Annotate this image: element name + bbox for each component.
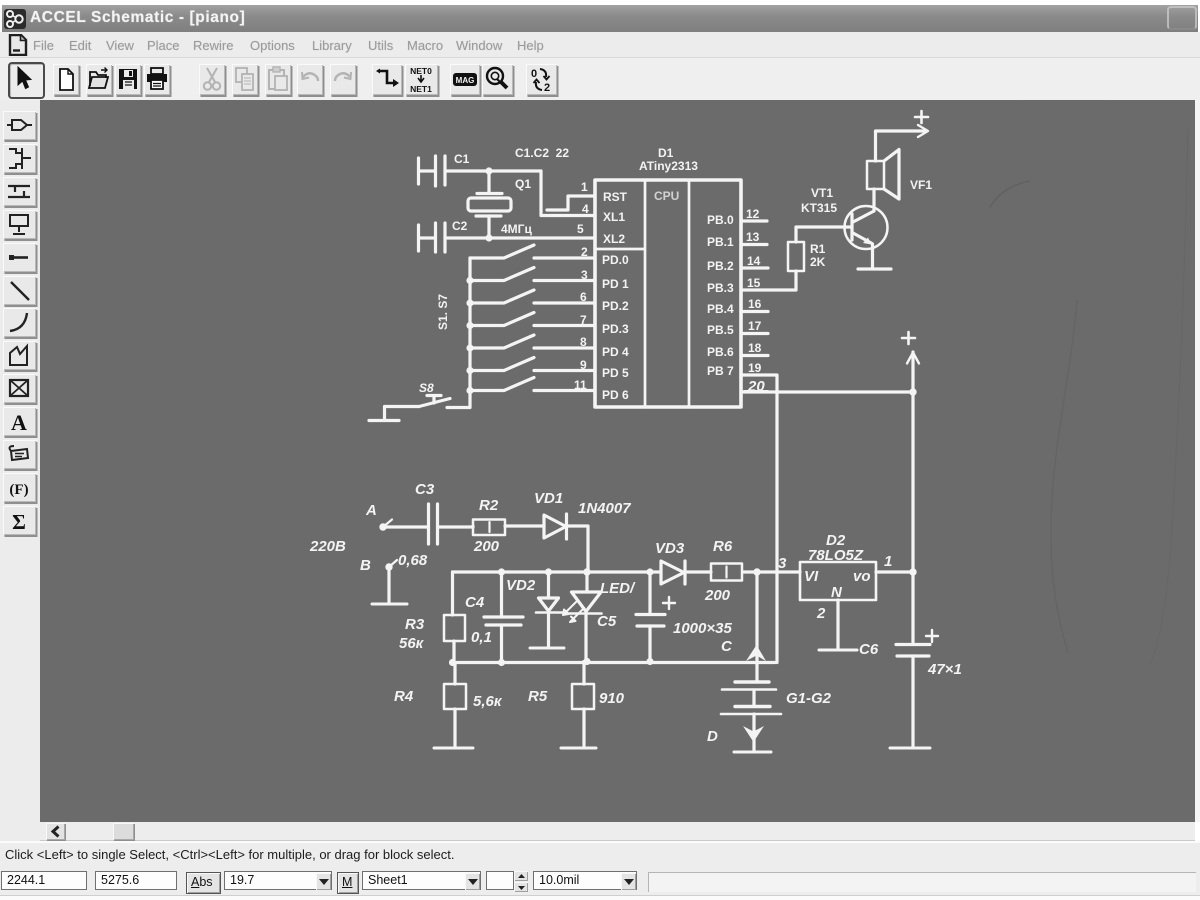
svg-text:4МГц: 4МГц (501, 222, 532, 236)
svg-text:R1: R1 (810, 242, 826, 256)
svg-text:vo: vo (853, 568, 871, 585)
wire pin 15 to R1 (741, 271, 796, 290)
diode VD3 (655, 540, 685, 584)
capacitor C1 (419, 152, 470, 186)
ground bar at VT1 emitter (858, 267, 891, 270)
svg-text:PD 6: PD 6 (602, 388, 629, 402)
rectified rail (upper) (453, 570, 801, 573)
crystal Q1 (468, 177, 531, 238)
lower common rail (453, 661, 776, 664)
svg-text:2: 2 (816, 605, 826, 622)
junction D2 output / riser (909, 568, 916, 575)
svg-text:78LO5Z: 78LO5Z (808, 547, 864, 564)
ground bar below R4 (434, 747, 473, 750)
bottom controls (0, 865, 1200, 895)
svg-text:12: 12 (746, 207, 760, 221)
svg-text:C5: C5 (597, 613, 617, 630)
wire C1 to crystal junction (445, 169, 541, 172)
pushbutton S8 (385, 381, 471, 419)
battery G1-G2 (721, 682, 832, 714)
switch S1 (470, 245, 594, 258)
svg-text:1N4007: 1N4007 (578, 500, 631, 517)
resistor R5 (528, 662, 625, 747)
svg-text:5,6к: 5,6к (473, 693, 503, 710)
resistor R4 (394, 663, 503, 747)
svg-text:C6: C6 (859, 641, 879, 658)
wire D2 output to +5V riser (876, 570, 913, 573)
scan artifact: faint curve far right edge (1150, 130, 1188, 664)
wire R2 to VD1 (505, 524, 544, 527)
junction pin20 / +5V riser (909, 388, 916, 395)
pin 14 stub (741, 266, 768, 269)
node A terminal (365, 502, 392, 531)
svg-text:G1-G2: G1-G2 (786, 690, 832, 707)
svg-text:KT315: KT315 (801, 201, 837, 215)
capacitor C4 (465, 572, 523, 663)
junction dots on upper rail (498, 568, 505, 575)
switch S6 (470, 358, 594, 371)
svg-text:PB.5: PB.5 (707, 323, 734, 337)
svg-text:0,68: 0,68 (398, 552, 428, 569)
zener diode VD2 (506, 572, 562, 647)
svg-text:R6: R6 (713, 538, 733, 555)
pin 17 stub (741, 332, 768, 335)
arrowhead up on +5V riser (907, 353, 919, 364)
switch bus S1-S7 common rail (468, 258, 471, 407)
svg-text:VD1: VD1 (534, 490, 563, 507)
ground bar below battery (734, 751, 771, 754)
svg-text:PB.3: PB.3 (707, 281, 734, 295)
plus symbol at VF1 supply (915, 111, 928, 123)
node B terminal (360, 557, 397, 602)
wire battery branch from rail to battery (755, 572, 758, 682)
svg-text:MAG: MAG (456, 76, 475, 85)
ground bar below C6 (890, 747, 930, 750)
svg-text:A: A (11, 410, 27, 435)
svg-text:PB.4: PB.4 (707, 302, 734, 316)
switch S4 (470, 313, 594, 326)
svg-text:R5: R5 (528, 688, 548, 705)
toolbar (0, 57, 1200, 101)
svg-text:PB.1: PB.1 (707, 235, 734, 249)
svg-text:VD3: VD3 (655, 540, 685, 557)
wire D2 pin2 down (836, 600, 839, 648)
LED HL1 (563, 572, 636, 662)
svg-text:910: 910 (599, 690, 625, 707)
capacitor C2 (419, 219, 468, 252)
svg-text:1000×35: 1000×35 (673, 620, 732, 637)
resistor R3 (399, 572, 465, 663)
wire A to C3 (384, 525, 428, 528)
junction on bus row 4 (466, 322, 473, 329)
pin 20 underline (744, 390, 768, 392)
wire top net down to pin 4 XL1 (541, 171, 594, 216)
svg-text:(F): (F) (9, 482, 28, 498)
ground bar below R5 (561, 747, 596, 750)
svg-text:D1: D1 (658, 146, 674, 160)
junction on bus row 3 (466, 299, 473, 306)
svg-text:S1. S7: S1. S7 (436, 294, 450, 330)
wire VD1 down to rectified rail (567, 526, 589, 572)
svg-text:Q1: Q1 (515, 177, 531, 191)
svg-text:XL1: XL1 (603, 210, 625, 224)
svg-text:C: C (721, 638, 733, 655)
svg-text:PD 4: PD 4 (602, 345, 629, 359)
loudspeaker VF1 (867, 150, 932, 200)
svg-text:NET1: NET1 (410, 84, 432, 94)
wire C6 to ground (911, 656, 914, 746)
svg-text:B: B (360, 557, 371, 574)
svg-text:13: 13 (746, 230, 760, 244)
terminal bar below node B (372, 603, 407, 606)
svg-text:PB.0: PB.0 (707, 213, 734, 227)
svg-text:ATiny2313: ATiny2313 (639, 159, 698, 173)
svg-text:PB 7: PB 7 (707, 364, 734, 378)
switch S7 (470, 378, 594, 391)
svg-text:S8: S8 (419, 381, 434, 395)
svg-text:CPU: CPU (654, 189, 679, 203)
svg-text:C1.C2 22: C1.C2 22 (515, 146, 569, 160)
svg-text:4: 4 (582, 202, 589, 216)
+5V riser wire with up arrow (911, 352, 914, 392)
junction on bus row 5 (466, 344, 473, 351)
resistor R1 (788, 242, 826, 271)
capacitor C3 (398, 481, 438, 569)
svg-text:R4: R4 (394, 688, 414, 705)
arrowhead down at node D (743, 726, 764, 742)
left palette (0, 100, 40, 822)
switch S3 (470, 290, 594, 303)
svg-text:VD2: VD2 (506, 577, 536, 594)
+5V riser vertical wire (911, 392, 914, 644)
node junction dot below crystal (485, 234, 492, 241)
transistor VT1 KT315 (801, 186, 888, 267)
node junction dot at crystal top (485, 167, 492, 174)
svg-text:PD 5: PD 5 (602, 366, 629, 380)
pin 13 stub (741, 243, 767, 246)
svg-text:R2: R2 (479, 497, 499, 514)
svg-text:C3: C3 (415, 481, 435, 498)
svg-text:200: 200 (473, 538, 500, 555)
arrowhead up at node C (746, 645, 766, 661)
scan artifact: faint long curve right (1051, 300, 1077, 652)
junction on bus row 2 (466, 277, 473, 284)
svg-text:PD.0: PD.0 (602, 253, 629, 267)
svg-text:N: N (831, 584, 843, 601)
svg-text:3: 3 (778, 555, 787, 572)
svg-text:XL2: XL2 (603, 232, 625, 246)
wire pin 19 down to lower rail (741, 375, 777, 663)
diode VD1 1N4007 (534, 490, 631, 539)
svg-text:15: 15 (747, 276, 761, 290)
svg-text:VT1: VT1 (811, 186, 833, 200)
scan artifact: wavy canvas top edge bump (1018, 93, 1108, 101)
wire C3 to R2 (438, 526, 474, 527)
svg-text:18: 18 (748, 341, 762, 355)
pin 16 stub (741, 310, 768, 313)
svg-text:0: 0 (531, 68, 537, 80)
svg-text:VF1: VF1 (910, 178, 932, 192)
op-amp U1: IC D1 ATtiny2313 body (595, 180, 741, 407)
horizontal scrollbar (0, 822, 40, 841)
svg-text:PB.6: PB.6 (707, 345, 734, 359)
svg-text:56к: 56к (399, 635, 425, 652)
svg-text:C1: C1 (454, 152, 470, 166)
svg-text:VI: VI (804, 568, 819, 585)
ground bar below D2 (819, 649, 857, 652)
supply arrow right (to +) (918, 125, 928, 137)
wire R1 to VT1 base (796, 227, 852, 242)
svg-text:RST: RST (603, 190, 628, 204)
select button (pressed) (8, 62, 45, 99)
svg-text:D: D (707, 728, 718, 745)
svg-text:2K: 2K (810, 255, 826, 269)
svg-text:PB.2: PB.2 (707, 259, 734, 273)
svg-text:PD 1: PD 1 (602, 277, 629, 291)
svg-text:16: 16 (748, 297, 762, 311)
wire battery minus down (752, 714, 755, 750)
svg-text:Σ: Σ (12, 510, 26, 534)
plus symbol at +5V riser (902, 332, 915, 344)
svg-text:0,1: 0,1 (471, 629, 492, 646)
prompt bar (0, 841, 1200, 867)
svg-text:19: 19 (748, 361, 762, 375)
svg-text:A: A (365, 502, 377, 519)
wire VF1 to supply arrow (876, 131, 927, 161)
terminal bar below VD2 (530, 647, 564, 650)
svg-text:5: 5 (577, 222, 584, 236)
ground terminal below S8 (369, 419, 399, 422)
svg-text:C4: C4 (465, 594, 485, 611)
svg-text:200: 200 (704, 587, 731, 604)
regulator D2 78L05 (800, 532, 876, 601)
wire C2 to pin 5 XL2 (445, 236, 594, 239)
junction on bus row 7 (466, 387, 473, 394)
electrolytic capacitor C6 (859, 630, 962, 678)
switch S2 (470, 268, 594, 281)
scan artifact: small faint arc (990, 181, 1030, 207)
svg-text:220В: 220В (309, 538, 346, 555)
resistor R6 (704, 538, 742, 604)
wire pin 20 to +5V rail (741, 390, 913, 393)
electrolytic capacitor C5 (597, 572, 732, 662)
svg-text:PD.3: PD.3 (602, 322, 629, 336)
title bar (2, 5, 1198, 34)
svg-text:17: 17 (748, 319, 762, 333)
resistor R2 (473, 497, 505, 555)
pin 18 stub (741, 354, 768, 357)
svg-text:NET0: NET0 (410, 66, 432, 76)
svg-text:2: 2 (544, 82, 550, 94)
pin 12 stub (741, 219, 767, 222)
svg-text:R3: R3 (405, 616, 425, 633)
menu bar (0, 32, 1200, 57)
svg-text:1: 1 (581, 180, 588, 194)
svg-text:LED/: LED/ (600, 580, 636, 597)
ghost window button top right (1167, 6, 1197, 30)
junction on bus row 6 (466, 367, 473, 374)
junction dots on lower rail (449, 659, 456, 666)
wire junction down to crystal (487, 171, 490, 192)
svg-text:14: 14 (747, 254, 761, 268)
wire RST pin 1 stub (547, 196, 594, 210)
svg-text:PD.2: PD.2 (602, 299, 629, 313)
svg-text:1: 1 (884, 553, 892, 570)
svg-text:C2: C2 (452, 219, 468, 233)
svg-text:47×1: 47×1 (927, 661, 962, 678)
switch S5 (470, 335, 594, 348)
canvas (40, 100, 1195, 822)
